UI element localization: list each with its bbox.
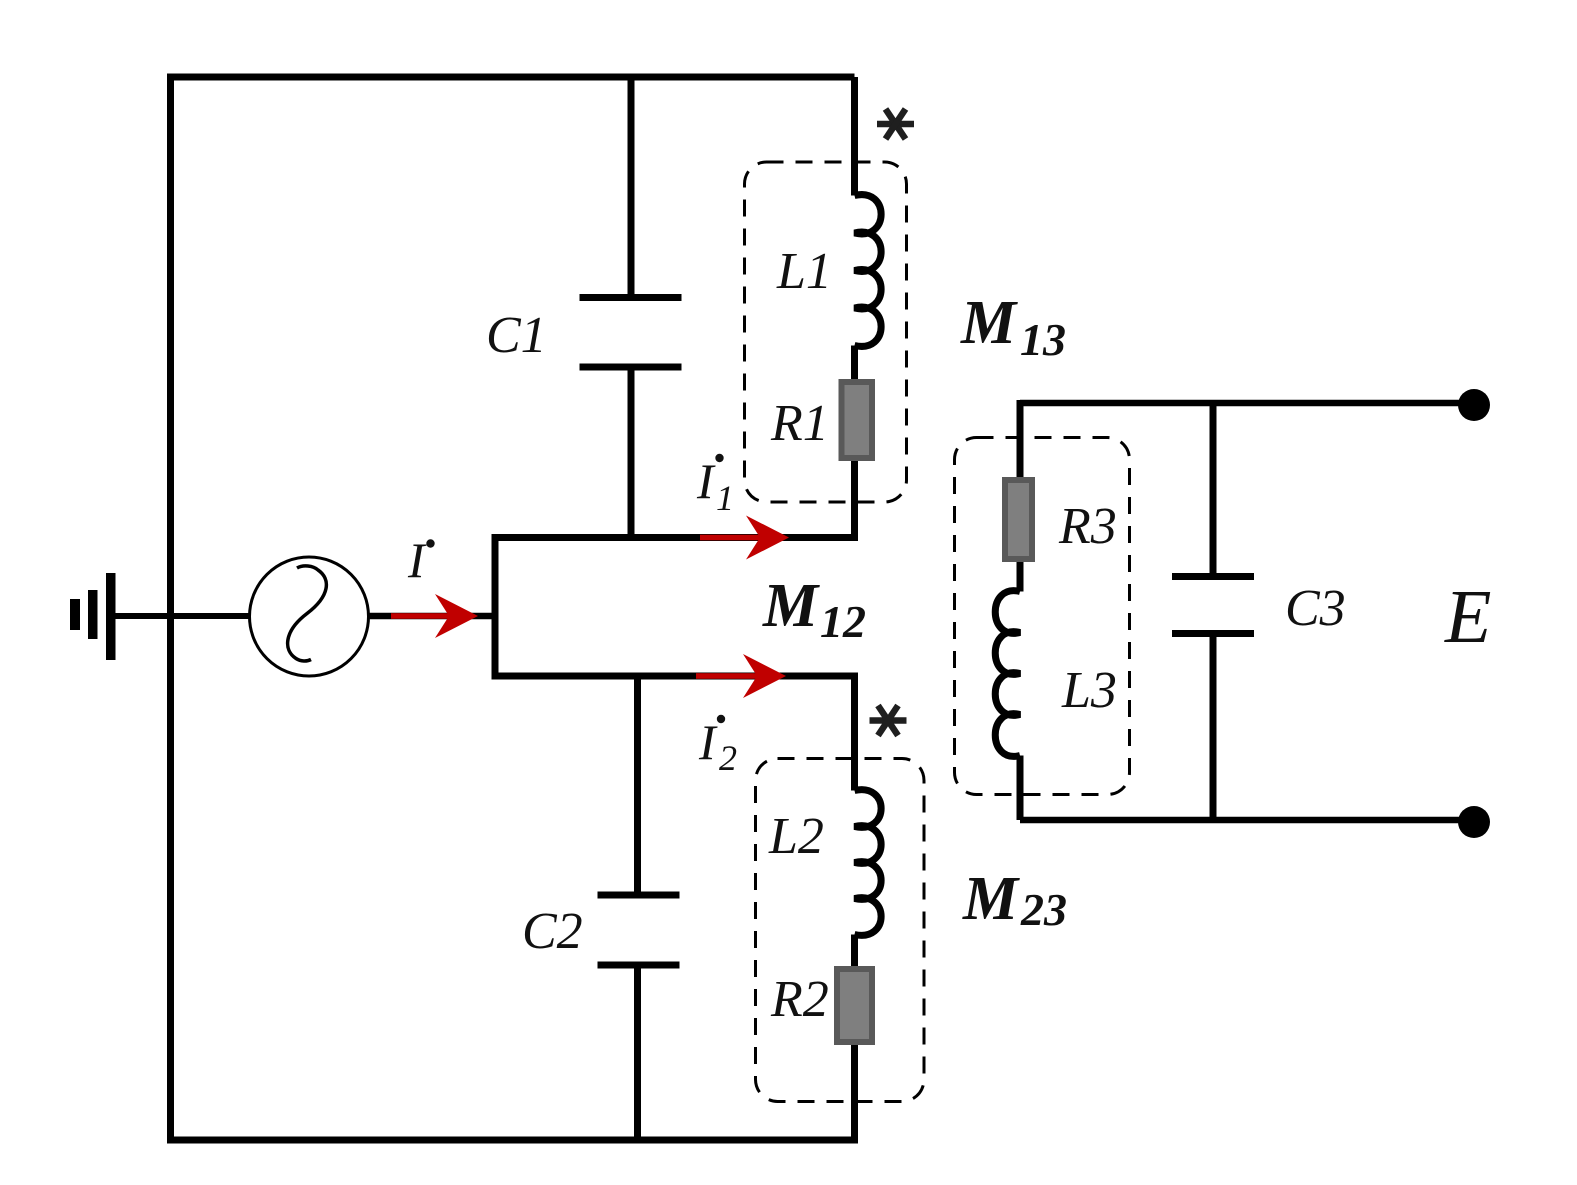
svg-text:L1: L1 bbox=[776, 243, 832, 300]
svg-text:I: I bbox=[696, 453, 716, 509]
svg-text:2: 2 bbox=[719, 738, 737, 778]
svg-text:L3: L3 bbox=[1061, 662, 1117, 719]
svg-text:I: I bbox=[698, 714, 718, 770]
svg-text:23: 23 bbox=[1020, 884, 1067, 935]
svg-text:M: M bbox=[962, 865, 1020, 933]
svg-text:R2: R2 bbox=[770, 971, 829, 1028]
svg-text:M: M bbox=[762, 572, 820, 640]
svg-text:R3: R3 bbox=[1058, 498, 1117, 555]
svg-text:C1: C1 bbox=[486, 307, 547, 364]
svg-text:R1: R1 bbox=[770, 395, 829, 452]
svg-text:C3: C3 bbox=[1285, 580, 1346, 637]
svg-text:1: 1 bbox=[716, 478, 734, 518]
svg-text:M: M bbox=[960, 289, 1018, 357]
svg-text:L2: L2 bbox=[768, 808, 824, 865]
svg-text:I: I bbox=[407, 532, 427, 588]
svg-text:12: 12 bbox=[820, 596, 866, 647]
svg-text:E: E bbox=[1444, 575, 1491, 659]
svg-text:13: 13 bbox=[1020, 314, 1066, 365]
svg-text:C2: C2 bbox=[522, 903, 583, 960]
